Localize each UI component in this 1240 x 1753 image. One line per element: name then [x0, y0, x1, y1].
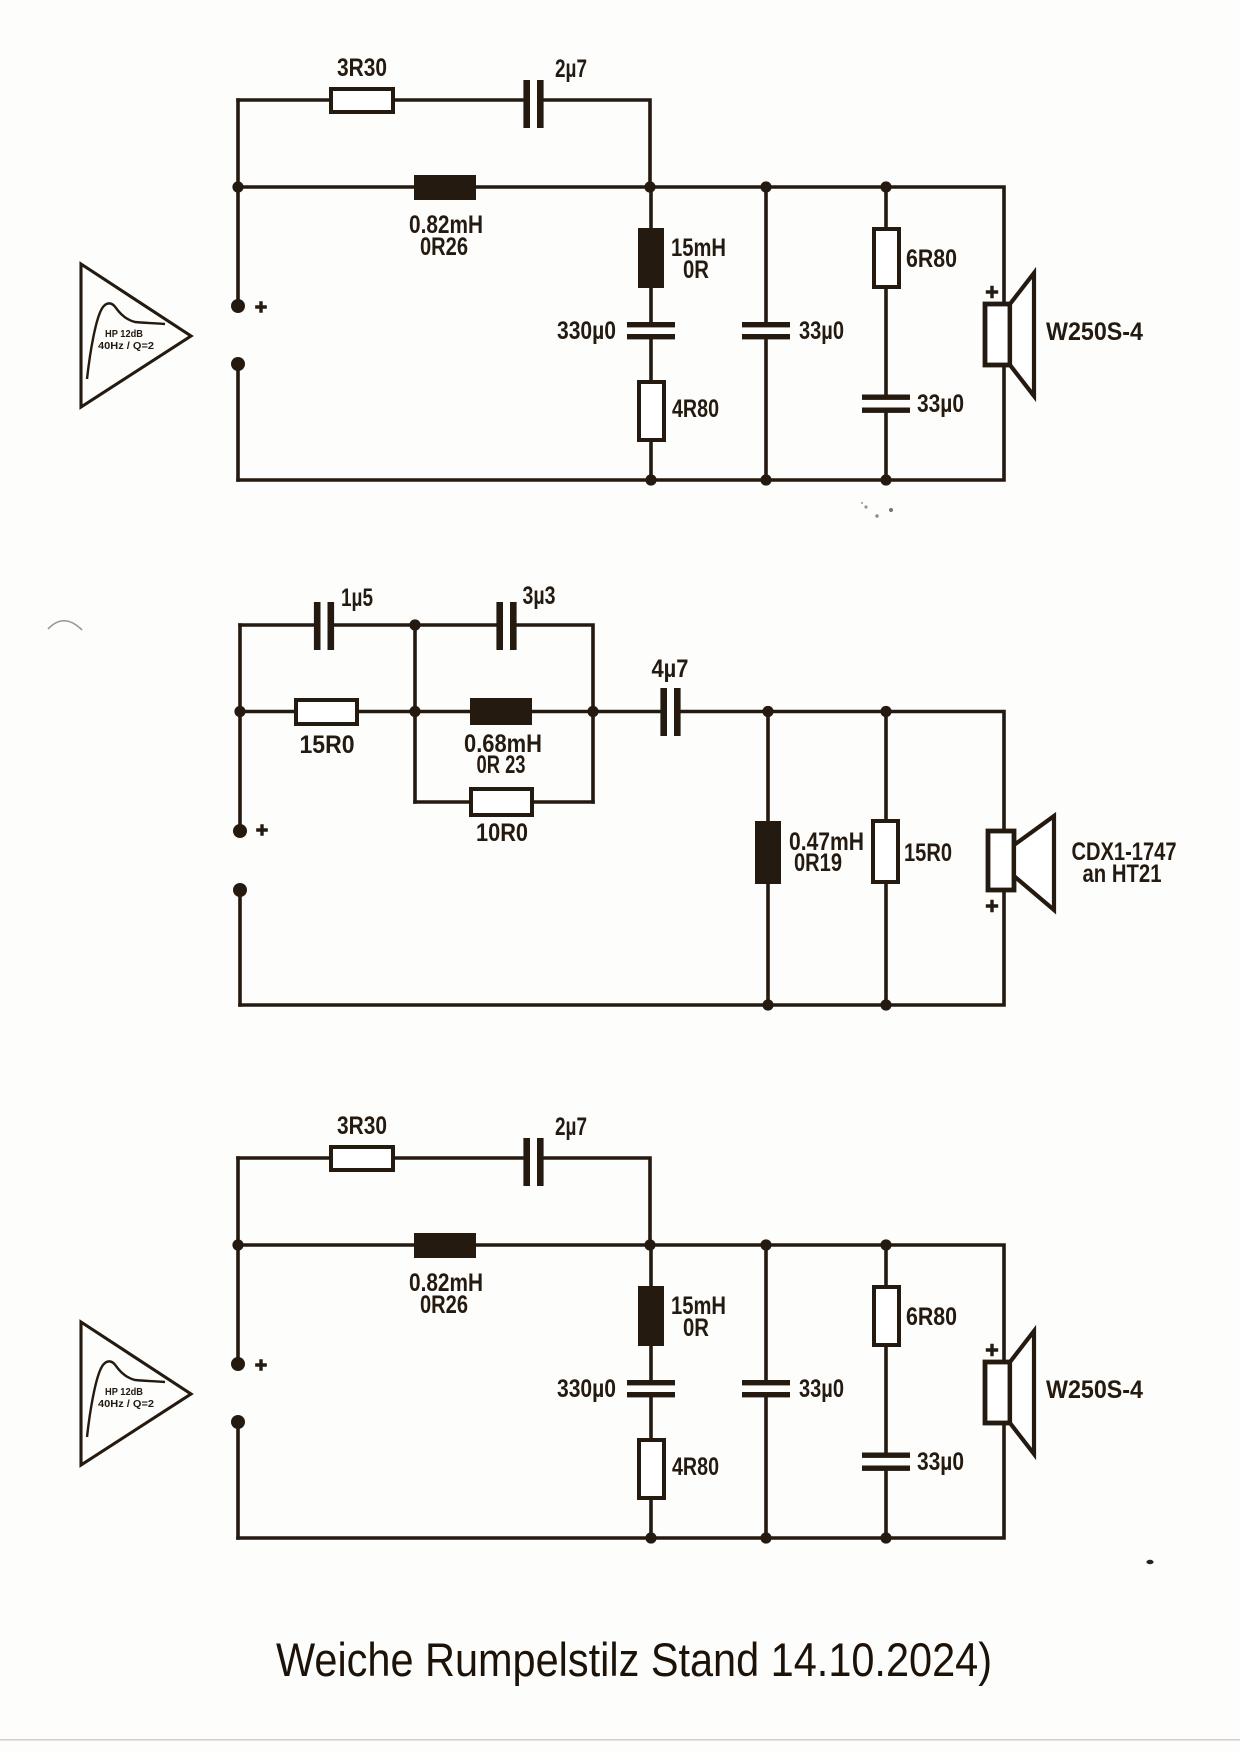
resistor 4R80 (woofer 2) — [639, 1440, 719, 1498]
wire: 33µ0 branch vertical (woofer 1) — [764, 187, 768, 480]
wire: 15mH branch vertical (woofer 2) — [649, 1245, 653, 1538]
svg-text:0R: 0R — [683, 1314, 709, 1342]
svg-text:6R80: 6R80 — [906, 1303, 957, 1331]
node: junction bottom / 0.47mH branch (tweeter) — [762, 999, 773, 1010]
resistor 4R80 (woofer 1) — [639, 382, 719, 440]
wire: left return vertical (woofer 2) — [236, 1422, 240, 1538]
resistor 15R0 shunt (tweeter) — [873, 821, 952, 882]
svg-text:4µ7: 4µ7 — [652, 655, 689, 683]
svg-text:15R0: 15R0 — [904, 839, 952, 867]
node: junction middle rail / 15R0 branch (tweeter) — [880, 706, 891, 717]
wire: main horizontal rail (woofer 2) — [238, 1245, 1004, 1362]
scan artifact: small ink blob right of woofer-2 bottom rail — [1146, 1560, 1153, 1564]
svg-text:W250S-4: W250S-4 — [1046, 318, 1143, 346]
node: junction top rail / parallel section (tweeter) — [409, 619, 420, 630]
svg-text:2µ7: 2µ7 — [555, 55, 587, 83]
node: junction bottom/33µ0 branch (woofer 2) — [760, 1532, 771, 1543]
svg-text:3R30: 3R30 — [337, 1112, 387, 1140]
svg-text:Weiche Rumpelstilz Stand 14.10: Weiche Rumpelstilz Stand 14.10.2024) — [276, 1634, 992, 1687]
wire: 6R80 branch vertical (woofer 2) — [884, 1245, 888, 1538]
capacitor 33µ0 RC shunt (woofer 2) — [862, 1448, 964, 1476]
node: - input terminal (tweeter) — [233, 883, 247, 897]
svg-text:10R0: 10R0 — [476, 819, 528, 847]
loudspeaker W250S-4 (woofer 2) — [985, 1331, 1143, 1454]
capacitor 1µ5 (tweeter) — [314, 584, 373, 650]
svg-text:330µ0: 330µ0 — [557, 317, 616, 345]
node: junction rail/15mH branch (woofer 1) — [644, 181, 655, 192]
capacitor 330µ0 (woofer 2) — [557, 1375, 675, 1403]
node: junction bottom/15mH branch (woofer 1) — [645, 474, 656, 485]
scan artifact: faint speckles below woofer-1 bottom rail — [861, 502, 893, 518]
inductor 0.82mH 0R26 (woofer 2) — [409, 1233, 483, 1319]
resistor 6R80 (woofer 2) — [874, 1287, 957, 1345]
wire: top rail right segment + corner down (woofer 2) — [544, 1158, 650, 1245]
wire: 6R80 branch vertical (woofer 1) — [884, 187, 888, 480]
inductor 0.68mH 0R23 (tweeter) — [464, 698, 542, 779]
resistor 6R80 (woofer 1) — [874, 229, 957, 287]
wire: tweeter sub rail with 10R0 — [415, 800, 593, 804]
capacitor 4µ7 (tweeter) — [652, 655, 689, 736]
node: junction input/rail (woofer 2) — [232, 1239, 243, 1250]
node: junction bottom/15mH branch (woofer 2) — [645, 1532, 656, 1543]
svg-text:HP 12dB: HP 12dB — [105, 1386, 143, 1398]
node: junction bottom / 15R0 branch (tweeter) — [880, 999, 891, 1010]
svg-text:0R 23: 0R 23 — [477, 751, 526, 779]
svg-text:0R26: 0R26 — [420, 233, 468, 261]
node: junction rail/33µ0 branch (woofer 1) — [760, 181, 771, 192]
wire: tweeter parallel-section left vertical — [413, 625, 417, 802]
scan artifact: faint arc left margin — [48, 621, 82, 630]
wire: left input vertical (woofer 2) — [236, 1158, 240, 1364]
node: + input terminal (tweeter) — [233, 824, 268, 838]
node: junction rail/6R80 branch (woofer 1) — [880, 181, 891, 192]
inductor 0.47mH 0R19 (tweeter) — [755, 821, 864, 884]
node: junction bottom/6R80 branch (woofer 2) — [880, 1532, 891, 1543]
inductor 0.82mH 0R26 (woofer 1) — [409, 175, 483, 261]
node: - input terminal (woofer 2) — [231, 1415, 245, 1429]
svg-text:330µ0: 330µ0 — [557, 1375, 616, 1403]
wire: tweeter top rail mid segment — [334, 623, 496, 627]
wire: left return vertical (woofer 1) — [236, 364, 240, 480]
svg-text:HP 12dB: HP 12dB — [105, 328, 143, 340]
svg-text:33µ0: 33µ0 — [917, 1448, 964, 1476]
svg-text:0R19: 0R19 — [794, 849, 842, 877]
node: - input terminal (woofer 1) — [231, 357, 245, 371]
wire: tweeter top rail right segment + corner down — [517, 625, 594, 802]
resistor 15R0 series (tweeter) — [296, 700, 357, 759]
resistor 3R30 (woofer 2) — [331, 1112, 393, 1170]
loudspeaker W250S-4 (woofer 1) — [985, 273, 1143, 396]
svg-text:4R80: 4R80 — [672, 395, 719, 423]
wire: tweeter left return vertical — [238, 890, 242, 1005]
resistor 10R0 (tweeter) — [471, 789, 532, 847]
svg-text:4R80: 4R80 — [672, 1453, 719, 1481]
svg-text:33µ0: 33µ0 — [917, 390, 964, 418]
node: junction middle rail / 0.47mH branch (tweeter) — [762, 706, 773, 717]
wire: bottom return rail (woofer 1) — [238, 365, 1004, 480]
svg-text:W250S-4: W250S-4 — [1046, 1376, 1143, 1404]
node: junction input/rail (woofer 1) — [232, 181, 243, 192]
wire: 33µ0 branch vertical (woofer 2) — [764, 1245, 768, 1538]
wire: input top rail (woofer 2) — [238, 1156, 330, 1160]
wire: top rail mid segment (woofer 1) — [393, 98, 523, 102]
svg-text:0R: 0R — [683, 256, 709, 284]
svg-text:2µ7: 2µ7 — [555, 1113, 587, 1141]
inductor 15mH 0R (woofer 1) — [638, 228, 726, 288]
capacitor 2µ7 (woofer 2) — [523, 1113, 587, 1186]
wire: tweeter left input vertical — [238, 625, 242, 831]
scan artifact: bottom scanner edge line — [0, 1739, 1240, 1741]
wire: tweeter top rail left segment — [240, 623, 314, 627]
wire: top rail right segment + corner down (woofer 1) — [544, 100, 650, 187]
inductor 15mH 0R (woofer 2) — [638, 1286, 726, 1346]
svg-text:3µ3: 3µ3 — [523, 582, 556, 610]
wire: 0.47mH branch vertical (tweeter) — [766, 712, 770, 1006]
capacitor 33µ0 shunt (woofer 1) — [742, 317, 844, 345]
capacitor 3µ3 (tweeter) — [496, 582, 555, 650]
capacitor 2µ7 (woofer 1) — [523, 55, 587, 128]
node: junction rail/33µ0 branch (woofer 2) — [760, 1239, 771, 1250]
wire: tweeter bottom return rail — [240, 890, 1004, 1005]
node: + input terminal (woofer 1) — [231, 299, 267, 313]
amplifier / highpass source symbol HP 12dB 40Hz Q=2 (woofer 2) — [81, 1322, 191, 1465]
wire: main horizontal rail (woofer 1) — [238, 187, 1004, 304]
svg-text:6R80: 6R80 — [906, 245, 957, 273]
node: junction rail/15mH branch (woofer 2) — [644, 1239, 655, 1250]
node: junction input / middle rail (tweeter) — [234, 706, 245, 717]
wire: 15mH branch vertical (woofer 1) — [649, 187, 653, 480]
loudspeaker CDX1-1747 an HT21 (tweeter horn) — [986, 816, 1177, 912]
svg-text:15R0: 15R0 — [300, 731, 355, 759]
wire: 15R0 shunt branch vertical (tweeter) — [884, 712, 888, 1006]
capacitor 33µ0 shunt (woofer 2) — [742, 1375, 844, 1403]
wire: input top rail (woofer 1) — [238, 98, 330, 102]
wire: left input vertical (woofer 1) — [236, 100, 240, 306]
svg-text:33µ0: 33µ0 — [799, 1375, 844, 1403]
node: junction rail/6R80 branch (woofer 2) — [880, 1239, 891, 1250]
wire: top rail mid segment (woofer 2) — [393, 1156, 523, 1160]
svg-text:0R26: 0R26 — [420, 1291, 468, 1319]
node: junction bottom/6R80 branch (woofer 1) — [880, 474, 891, 485]
node: + input terminal (woofer 2) — [231, 1357, 267, 1371]
node: junction middle rail / parallel right (tweeter) — [587, 706, 598, 717]
svg-text:33µ0: 33µ0 — [799, 317, 844, 345]
node: junction middle rail / parallel left (tweeter) — [409, 706, 420, 717]
amplifier / highpass source symbol HP 12dB 40Hz Q=2 (woofer 1) — [81, 264, 191, 407]
resistor 3R30 (woofer 1) — [331, 54, 393, 112]
svg-text:40Hz / Q=2: 40Hz / Q=2 — [98, 1398, 154, 1410]
svg-text:40Hz / Q=2: 40Hz / Q=2 — [98, 340, 154, 352]
svg-text:3R30: 3R30 — [337, 54, 387, 82]
capacitor 33µ0 RC shunt (woofer 1) — [862, 390, 964, 418]
wire: tweeter middle rail — [240, 712, 1004, 832]
capacitor 330µ0 (woofer 1) — [557, 317, 675, 345]
svg-text:1µ5: 1µ5 — [341, 584, 373, 612]
svg-text:an HT21: an HT21 — [1083, 860, 1162, 888]
wire: bottom return rail (woofer 2) — [238, 1423, 1004, 1538]
node: junction bottom/33µ0 branch (woofer 1) — [760, 474, 771, 485]
